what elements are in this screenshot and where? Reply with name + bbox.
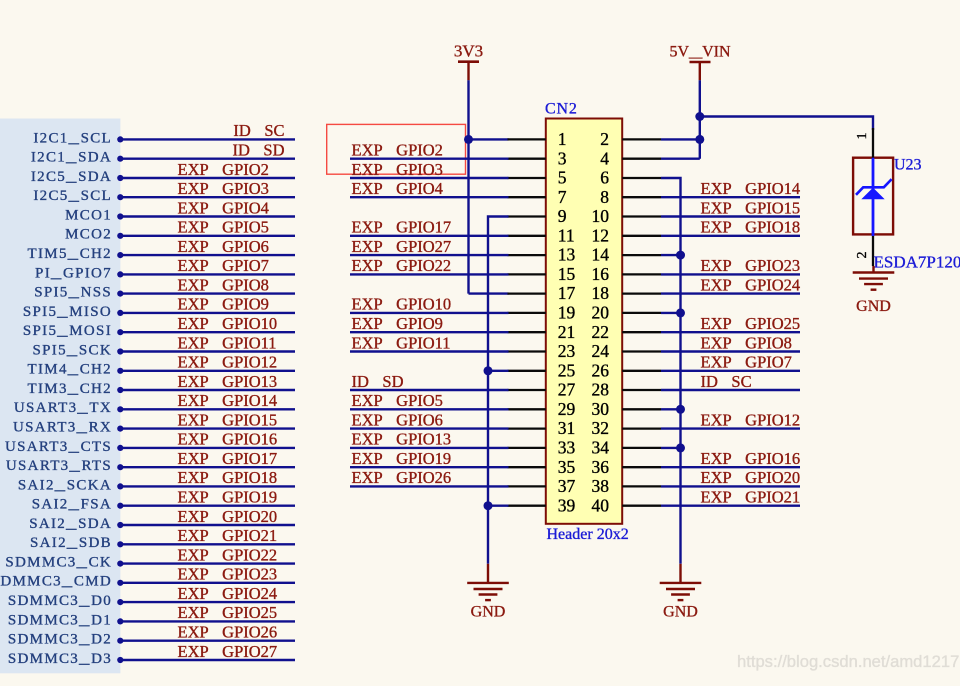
- svg-text:37: 37: [558, 476, 576, 496]
- svg-text:USART3_CTS: USART3_CTS: [5, 439, 112, 455]
- svg-text:SDMMC3_D1: SDMMC3_D1: [8, 612, 112, 628]
- svg-text:20: 20: [592, 303, 610, 323]
- pin 40: [592, 495, 662, 515]
- svg-text:EXP_GPIO23: EXP_GPIO23: [178, 565, 278, 584]
- wire net EXP_GPIO4: [123, 215, 296, 217]
- wire net EXP_GPIO14 from pin 8: [661, 196, 800, 198]
- wire net EXP_GPIO3: [123, 196, 296, 198]
- svg-text:27: 27: [558, 380, 576, 400]
- svg-text:I2C5_SDA: I2C5_SDA: [31, 169, 112, 185]
- svg-text:SPI5_MOSI: SPI5_MOSI: [23, 323, 112, 339]
- wire net EXP_GPIO3 to pin 5: [350, 177, 509, 179]
- transient diode U23 body: [853, 158, 893, 235]
- wire net EXP_GPIO9 to pin 21: [350, 331, 509, 333]
- svg-text:12: 12: [592, 225, 610, 245]
- wire 5V vertical rail: [699, 80, 701, 158]
- svg-text:SDMMC3_CMD: SDMMC3_CMD: [0, 574, 112, 590]
- wire net EXP_GPIO14: [123, 408, 296, 410]
- svg-text:5: 5: [558, 168, 567, 188]
- svg-text:TIM4_CH2: TIM4_CH2: [28, 362, 112, 378]
- svg-text:EXP_GPIO14: EXP_GPIO14: [701, 179, 801, 198]
- wire net EXP_GPIO4 to pin 7: [350, 196, 509, 198]
- svg-text:EXP_GPIO27: EXP_GPIO27: [178, 642, 278, 661]
- svg-text:36: 36: [592, 457, 610, 477]
- pin 21: [508, 322, 576, 342]
- svg-text:33: 33: [558, 438, 576, 458]
- wire net EXP_GPIO9: [123, 312, 296, 314]
- svg-text:17: 17: [558, 283, 576, 303]
- svg-text:SPI5_SCK: SPI5_SCK: [33, 342, 112, 358]
- wire net ID_SD to pin 27: [350, 389, 509, 391]
- svg-text:EXP_GPIO9: EXP_GPIO9: [178, 295, 269, 314]
- port MCO1: [65, 207, 123, 223]
- pin 12: [592, 225, 662, 245]
- port SDMMC3_D0: [8, 593, 123, 609]
- svg-text:31: 31: [558, 418, 576, 438]
- wire net EXP_GPIO24: [123, 601, 296, 603]
- pin 1: [508, 129, 567, 149]
- svg-text:I2C1_SDA: I2C1_SDA: [31, 150, 112, 166]
- wire net EXP_GPIO20: [123, 524, 296, 526]
- svg-text:EXP_GPIO20: EXP_GPIO20: [701, 468, 801, 487]
- svg-text:EXP_GPIO9: EXP_GPIO9: [352, 314, 443, 333]
- pin 39: [508, 495, 576, 515]
- port SPI5_SCK: [33, 342, 124, 358]
- svg-text:29: 29: [558, 399, 576, 419]
- pin 30: [592, 399, 662, 419]
- pin 26: [592, 360, 662, 380]
- pin 2: [600, 129, 661, 149]
- svg-text:SDMMC3_D2: SDMMC3_D2: [8, 632, 112, 648]
- svg-text:7: 7: [558, 187, 567, 207]
- ground symbol U23: [853, 266, 895, 315]
- wire pin39 to GND rail: [488, 505, 509, 507]
- svg-text:EXP_GPIO5: EXP_GPIO5: [352, 391, 443, 410]
- svg-text:EXP_GPIO4: EXP_GPIO4: [352, 179, 443, 198]
- wire net EXP_GPIO11 to pin 23: [350, 350, 509, 352]
- pin 3: [508, 148, 567, 168]
- svg-text:2: 2: [855, 252, 870, 259]
- svg-text:EXP_GPIO3: EXP_GPIO3: [352, 160, 443, 179]
- pin 8: [600, 187, 661, 207]
- highlight box around EXP_GPIO2/EXP_GPIO3: [327, 124, 466, 174]
- svg-text:EXP_GPIO16: EXP_GPIO16: [701, 449, 801, 468]
- svg-text:32: 32: [592, 418, 610, 438]
- svg-text:EXP_GPIO5: EXP_GPIO5: [178, 218, 269, 237]
- wire net EXP_GPIO23: [123, 582, 296, 584]
- svg-text:U23: U23: [894, 157, 922, 174]
- port SDMMC3_CK: [5, 555, 123, 571]
- svg-text:GND: GND: [663, 604, 698, 621]
- svg-text:EXP_GPIO19: EXP_GPIO19: [352, 449, 452, 468]
- junction GND/pin30: [676, 405, 685, 414]
- wire net EXP_GPIO22 to pin 15: [350, 273, 509, 275]
- svg-text:USART3_RTS: USART3_RTS: [6, 458, 112, 474]
- svg-text:EXP_GPIO27: EXP_GPIO27: [352, 237, 452, 256]
- wire net EXP_GPIO13: [123, 389, 296, 391]
- svg-text:EXP_GPIO11: EXP_GPIO11: [178, 333, 277, 352]
- pin 15: [508, 264, 576, 284]
- sheet symbol panel: [0, 119, 120, 674]
- svg-text:SAI2_SDB: SAI2_SDB: [30, 535, 112, 551]
- U23 pin 1: [855, 128, 873, 158]
- wire 5V to pin4: [661, 157, 700, 159]
- wire pin30 to GND rail: [661, 408, 681, 410]
- pin 4: [600, 148, 661, 168]
- port USART3_RX: [13, 420, 123, 436]
- pin 23: [508, 341, 576, 361]
- pin 31: [508, 418, 576, 438]
- svg-text:13: 13: [558, 245, 576, 265]
- wire net EXP_GPIO21 from pin 40: [661, 505, 800, 507]
- svg-text:2: 2: [600, 129, 609, 149]
- pin 13: [508, 245, 576, 265]
- svg-text:11: 11: [558, 225, 575, 245]
- svg-text:EXP_GPIO21: EXP_GPIO21: [178, 526, 278, 545]
- pin 33: [508, 438, 576, 458]
- port SDMMC3_D3: [8, 651, 123, 667]
- port SPI5_MISO: [23, 304, 124, 320]
- svg-text:CN2: CN2: [545, 101, 578, 118]
- junction 3V3/pin1: [464, 135, 473, 144]
- port USART3_CTS: [5, 439, 123, 455]
- pin 17: [508, 283, 576, 303]
- svg-text:SPI5_NSS: SPI5_NSS: [34, 285, 112, 301]
- wire net EXP_GPIO5: [123, 235, 296, 237]
- pin 24: [592, 341, 662, 361]
- pin 19: [508, 303, 576, 323]
- svg-text:EXP_GPIO18: EXP_GPIO18: [178, 468, 278, 487]
- svg-text:TIM5_CH2: TIM5_CH2: [28, 246, 112, 262]
- junction GND/pin39: [484, 501, 493, 510]
- svg-text:28: 28: [592, 380, 610, 400]
- wire pin20 to GND rail: [661, 312, 681, 314]
- wire net EXP_GPIO17: [123, 466, 296, 468]
- svg-text:EXP_GPIO22: EXP_GPIO22: [178, 545, 278, 564]
- junction GND/pin25: [484, 366, 493, 375]
- svg-text:EXP_GPIO4: EXP_GPIO4: [178, 198, 269, 217]
- svg-text:SAI2_FSA: SAI2_FSA: [32, 497, 112, 513]
- pin 35: [508, 457, 576, 477]
- ground symbol right: [660, 564, 702, 621]
- wire GND rail left: [488, 217, 509, 564]
- wire net EXP_GPIO7 from pin 26: [661, 370, 800, 372]
- svg-text:34: 34: [592, 438, 610, 458]
- wire net EXP_GPIO15 from pin 10: [661, 215, 800, 217]
- wire net ID_SD: [123, 157, 296, 159]
- svg-text:SAI2_SCKA: SAI2_SCKA: [18, 477, 112, 493]
- pin 14: [592, 245, 662, 265]
- wire net ID_SC: [123, 138, 296, 140]
- svg-text:25: 25: [558, 360, 576, 380]
- wire 3V3 to pin17: [469, 292, 509, 294]
- svg-text:8: 8: [600, 187, 609, 207]
- svg-text:MCO1: MCO1: [65, 207, 112, 223]
- svg-text:EXP_GPIO2: EXP_GPIO2: [178, 160, 269, 179]
- svg-text:MCO2: MCO2: [65, 227, 112, 243]
- pin 22: [592, 322, 662, 342]
- wire net EXP_GPIO13 to pin 33: [350, 447, 509, 449]
- wire 3V3 to pin1: [469, 138, 509, 140]
- wire net EXP_GPIO16: [123, 447, 296, 449]
- svg-text:5V_VIN: 5V_VIN: [670, 44, 731, 61]
- pin 28: [592, 380, 662, 400]
- wire 5V branch to U23: [700, 117, 873, 131]
- svg-text:10: 10: [592, 206, 610, 226]
- svg-text:SDMMC3_CK: SDMMC3_CK: [5, 555, 112, 571]
- svg-text:TIM3_CH2: TIM3_CH2: [28, 381, 112, 397]
- pin 10: [592, 206, 662, 226]
- svg-text:SAI2_SDA: SAI2_SDA: [29, 516, 112, 532]
- wire net EXP_GPIO15: [123, 427, 296, 429]
- wire net EXP_GPIO26 to pin 37: [350, 485, 509, 487]
- svg-text:EXP_GPIO17: EXP_GPIO17: [352, 218, 452, 237]
- svg-text:EXP_GPIO11: EXP_GPIO11: [352, 333, 451, 352]
- pin 29: [508, 399, 576, 419]
- pin 11: [508, 225, 575, 245]
- port PI_GPIO7: [35, 265, 123, 281]
- port SAI2_SDB: [30, 535, 123, 551]
- svg-text:EXP_GPIO13: EXP_GPIO13: [352, 430, 452, 449]
- wire net EXP_GPIO23 from pin 16: [661, 273, 800, 275]
- junction GND/pin20: [676, 308, 685, 317]
- port TIM5_CH2: [28, 246, 124, 262]
- svg-text:22: 22: [592, 322, 610, 342]
- svg-text:14: 14: [592, 245, 610, 265]
- wire net EXP_GPIO21: [123, 543, 296, 545]
- svg-text:EXP_GPIO14: EXP_GPIO14: [178, 391, 278, 410]
- port I2C1_SCL: [33, 130, 123, 146]
- svg-text:21: 21: [558, 322, 576, 342]
- svg-text:EXP_GPIO25: EXP_GPIO25: [178, 603, 278, 622]
- svg-text:35: 35: [558, 457, 576, 477]
- wire net EXP_GPIO12 from pin 32: [661, 427, 800, 429]
- pin 38: [592, 476, 662, 496]
- svg-text:Header 20x2: Header 20x2: [547, 526, 629, 543]
- port USART3_RTS: [6, 458, 123, 474]
- pin 32: [592, 418, 662, 438]
- svg-text:EXP_GPIO22: EXP_GPIO22: [352, 256, 452, 275]
- svg-text:GND: GND: [471, 604, 506, 621]
- wire net ID_SC from pin 28: [661, 389, 800, 391]
- wire net EXP_GPIO12: [123, 370, 296, 372]
- wire net EXP_GPIO19 to pin 35: [350, 466, 509, 468]
- svg-text:SPI5_MISO: SPI5_MISO: [23, 304, 112, 320]
- svg-text:https://blog.csdn.net/amd1217: https://blog.csdn.net/amd1217: [737, 652, 959, 671]
- wire pin34 to GND rail: [661, 447, 681, 449]
- pin 36: [592, 457, 662, 477]
- svg-text:39: 39: [558, 495, 576, 515]
- wire net EXP_GPIO11: [123, 350, 296, 352]
- wire net EXP_GPIO26: [123, 640, 296, 642]
- svg-text:6: 6: [600, 168, 609, 188]
- svg-text:EXP_GPIO26: EXP_GPIO26: [178, 623, 278, 642]
- junction GND/pin34: [676, 443, 685, 452]
- wire net EXP_GPIO6 to pin 31: [350, 427, 509, 429]
- wire net EXP_GPIO24 from pin 18: [661, 292, 800, 294]
- wire net EXP_GPIO7: [123, 273, 296, 275]
- wire net EXP_GPIO27 to pin 13: [350, 254, 509, 256]
- svg-text:PI_GPIO7: PI_GPIO7: [35, 265, 112, 281]
- svg-text:EXP_GPIO15: EXP_GPIO15: [701, 198, 801, 217]
- svg-text:19: 19: [558, 303, 576, 323]
- wire net EXP_GPIO25: [123, 620, 296, 622]
- port MCO2: [65, 227, 123, 243]
- svg-text:EXP_GPIO3: EXP_GPIO3: [178, 179, 269, 198]
- port SDMMC3_D2: [8, 632, 123, 648]
- svg-text:15: 15: [558, 264, 576, 284]
- svg-text:24: 24: [592, 341, 610, 361]
- wire net EXP_GPIO5 to pin 29: [350, 408, 509, 410]
- wire net EXP_GPIO10: [123, 331, 296, 333]
- svg-text:3V3: 3V3: [454, 42, 483, 61]
- svg-text:I2C1_SCL: I2C1_SCL: [33, 130, 112, 146]
- svg-text:EXP_GPIO25: EXP_GPIO25: [701, 314, 801, 333]
- pin 20: [592, 303, 662, 323]
- port SAI2_FSA: [32, 497, 124, 513]
- svg-text:EXP_GPIO24: EXP_GPIO24: [701, 275, 801, 294]
- svg-text:EXP_GPIO2: EXP_GPIO2: [352, 141, 443, 160]
- svg-text:4: 4: [600, 148, 609, 168]
- U23 diode symbol: [856, 158, 892, 236]
- svg-text:EXP_GPIO10: EXP_GPIO10: [178, 314, 278, 333]
- wire pin14 to GND rail: [661, 254, 681, 256]
- svg-text:EXP_GPIO16: EXP_GPIO16: [178, 430, 278, 449]
- wire net EXP_GPIO10 to pin 19: [350, 312, 509, 314]
- port SDMMC3_CMD: [0, 574, 123, 590]
- port SAI2_SDA: [29, 516, 123, 532]
- svg-text:40: 40: [592, 495, 610, 515]
- pin 37: [508, 476, 576, 496]
- port SPI5_NSS: [34, 285, 123, 301]
- port I2C1_SDA: [31, 150, 124, 166]
- svg-text:9: 9: [558, 206, 567, 226]
- svg-text:EXP_GPIO6: EXP_GPIO6: [352, 410, 443, 429]
- svg-text:EXP_GPIO26: EXP_GPIO26: [352, 468, 452, 487]
- svg-text:EXP_GPIO20: EXP_GPIO20: [178, 507, 278, 526]
- pin 18: [592, 283, 662, 303]
- wire net EXP_GPIO20 from pin 38: [661, 485, 800, 487]
- wire net EXP_GPIO18: [123, 485, 296, 487]
- pin 6: [600, 168, 661, 188]
- svg-text:EXP_GPIO13: EXP_GPIO13: [178, 372, 278, 391]
- svg-text:EXP_GPIO23: EXP_GPIO23: [701, 256, 801, 275]
- svg-text:I2C5_SCL: I2C5_SCL: [33, 188, 112, 204]
- pin 27: [508, 380, 576, 400]
- port TIM4_CH2: [28, 362, 124, 378]
- svg-text:EXP_GPIO17: EXP_GPIO17: [178, 449, 278, 468]
- wire pin25 to GND rail: [488, 370, 509, 372]
- wire net EXP_GPIO2: [123, 177, 296, 179]
- pin 25: [508, 360, 576, 380]
- svg-text:GND: GND: [856, 298, 891, 315]
- svg-text:ESDA7P120: ESDA7P120: [874, 253, 960, 272]
- port TIM3_CH2: [28, 381, 124, 397]
- svg-text:USART3_TX: USART3_TX: [14, 400, 112, 416]
- wire net EXP_GPIO2 to pin 3: [350, 157, 509, 159]
- svg-text:EXP_GPIO12: EXP_GPIO12: [178, 353, 278, 372]
- power port 5V_VIN: [670, 44, 731, 81]
- wire net EXP_GPIO8 from pin 24: [661, 350, 800, 352]
- ground symbol left: [467, 564, 509, 621]
- port USART3_TX: [14, 400, 124, 416]
- svg-text:30: 30: [592, 399, 610, 419]
- svg-text:EXP_GPIO6: EXP_GPIO6: [178, 237, 269, 256]
- pin 7: [508, 187, 567, 207]
- junction 5V/pin2: [695, 135, 704, 144]
- svg-text:EXP_GPIO19: EXP_GPIO19: [178, 488, 278, 507]
- svg-text:EXP_GPIO10: EXP_GPIO10: [352, 295, 452, 314]
- wire net EXP_GPIO25 from pin 22: [661, 331, 800, 333]
- wire GND rail right: [661, 178, 681, 564]
- wire 3V3 vertical rail: [467, 80, 469, 293]
- port I2C5_SCL: [33, 188, 123, 204]
- svg-text:EXP_GPIO24: EXP_GPIO24: [178, 584, 278, 603]
- wire 5V to pin2: [661, 138, 700, 140]
- wire net EXP_GPIO16 from pin 36: [661, 466, 800, 468]
- svg-text:USART3_RX: USART3_RX: [13, 420, 112, 436]
- svg-text:3: 3: [558, 148, 567, 168]
- pin 16: [592, 264, 662, 284]
- svg-text:EXP_GPIO18: EXP_GPIO18: [701, 218, 801, 237]
- svg-text:16: 16: [592, 264, 610, 284]
- pin 34: [592, 438, 662, 458]
- port SDMMC3_D1: [8, 612, 123, 628]
- svg-text:EXP_GPIO7: EXP_GPIO7: [701, 353, 792, 372]
- junction 5V/U23 branch: [695, 112, 704, 121]
- wire net EXP_GPIO19: [123, 505, 296, 507]
- junction GND/pin14: [676, 251, 685, 260]
- svg-text:EXP_GPIO8: EXP_GPIO8: [701, 333, 792, 352]
- svg-text:SDMMC3_D0: SDMMC3_D0: [8, 593, 112, 609]
- svg-text:EXP_GPIO8: EXP_GPIO8: [178, 275, 269, 294]
- U23 pin 2: [855, 234, 873, 266]
- svg-text:SDMMC3_D3: SDMMC3_D3: [8, 651, 112, 667]
- svg-text:38: 38: [592, 476, 610, 496]
- svg-text:EXP_GPIO15: EXP_GPIO15: [178, 410, 278, 429]
- pin 9: [508, 206, 567, 226]
- port SPI5_MOSI: [23, 323, 124, 339]
- wire net EXP_GPIO18 from pin 12: [661, 235, 800, 237]
- port I2C5_SDA: [31, 169, 124, 185]
- wire net EXP_GPIO17 to pin 11: [350, 235, 509, 237]
- svg-text:EXP_GPIO12: EXP_GPIO12: [701, 410, 801, 429]
- wire net EXP_GPIO8: [123, 292, 296, 294]
- power port 3V3: [454, 42, 483, 81]
- wire net EXP_GPIO22: [123, 562, 296, 564]
- svg-text:EXP_GPIO7: EXP_GPIO7: [178, 256, 269, 275]
- svg-text:18: 18: [592, 283, 610, 303]
- svg-text:26: 26: [592, 360, 610, 380]
- port SAI2_SCKA: [18, 477, 123, 493]
- svg-text:EXP_GPIO21: EXP_GPIO21: [701, 488, 801, 507]
- svg-text:23: 23: [558, 341, 576, 361]
- connector CN2 body: [546, 119, 622, 524]
- wire net EXP_GPIO27: [123, 659, 296, 661]
- pin 5: [508, 168, 567, 188]
- wire net EXP_GPIO6: [123, 254, 296, 256]
- svg-text:1: 1: [558, 129, 567, 149]
- svg-text:1: 1: [855, 133, 870, 140]
